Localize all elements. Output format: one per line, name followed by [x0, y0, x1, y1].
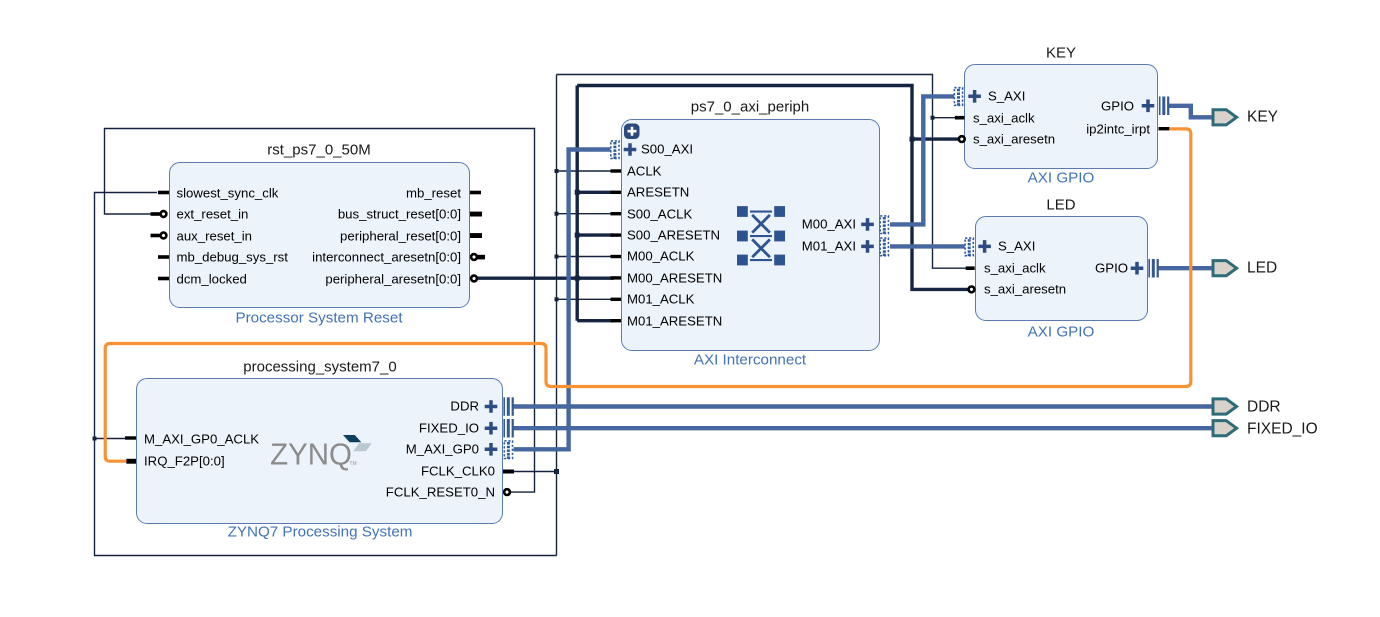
svg-text:TM: TM [350, 461, 357, 467]
